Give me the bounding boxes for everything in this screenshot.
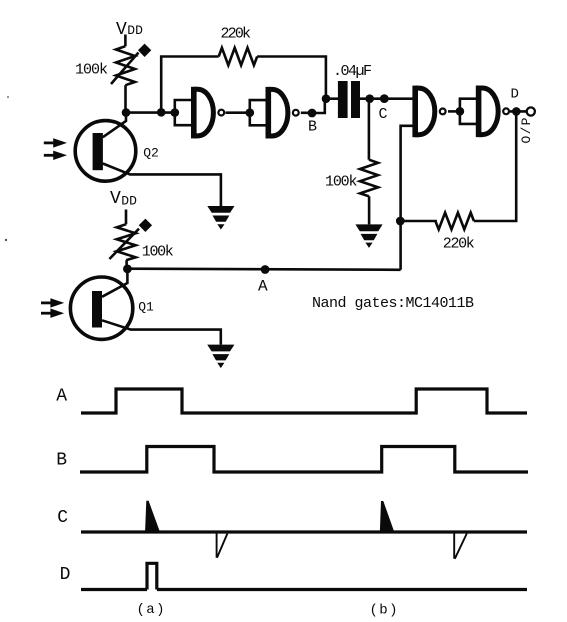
svg-text:V: V — [116, 20, 127, 40]
svg-text:220k: 220k — [443, 236, 475, 253]
svg-text:C: C — [57, 508, 68, 528]
svg-text:O/P: O/P — [519, 117, 534, 143]
svg-text:100k: 100k — [75, 62, 108, 79]
svg-text:100k: 100k — [325, 174, 358, 191]
svg-text:C: C — [379, 106, 388, 123]
svg-text:A: A — [258, 277, 268, 295]
svg-text:DD: DD — [127, 23, 143, 38]
svg-text:B: B — [56, 450, 67, 470]
svg-text:DD: DD — [121, 194, 137, 209]
svg-text:A: A — [56, 387, 67, 407]
svg-text:(a): (a) — [137, 602, 165, 618]
svg-text:100k: 100k — [142, 243, 174, 260]
svg-text:B: B — [308, 118, 317, 135]
svg-text:D: D — [60, 565, 71, 585]
svg-text:(b): (b) — [370, 602, 398, 618]
svg-text:.04µF: .04µF — [333, 63, 372, 80]
svg-text:Nand gates:MC14011B: Nand gates:MC14011B — [312, 295, 474, 312]
svg-text:D: D — [511, 87, 519, 103]
svg-text:220k: 220k — [221, 25, 252, 42]
svg-text:Q2: Q2 — [143, 145, 159, 160]
svg-text:V: V — [110, 189, 121, 209]
svg-text:Q1: Q1 — [138, 299, 154, 314]
